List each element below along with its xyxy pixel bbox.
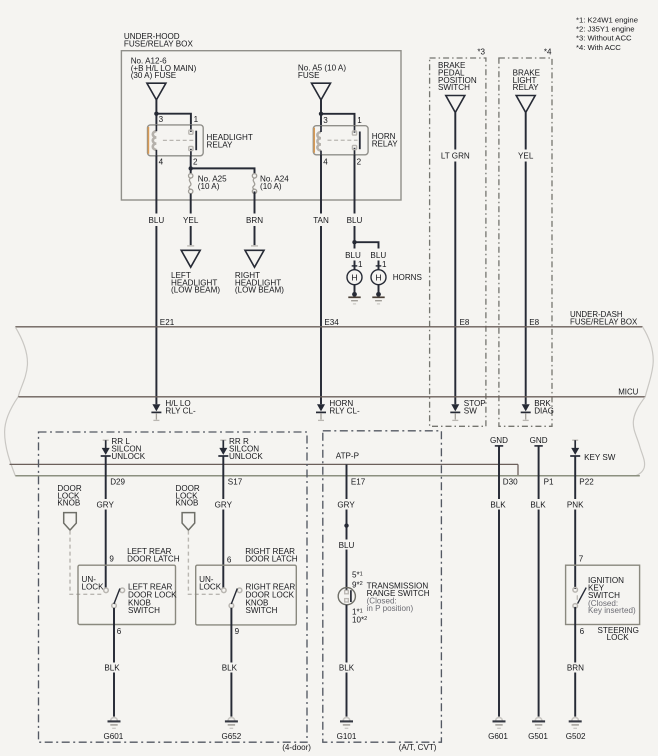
svg-text:G502: G502 [566,732,586,741]
svg-text:RELAY: RELAY [513,83,540,92]
wire label BLU (left horn) [345,242,361,260]
svg-text:G601: G601 [488,732,508,741]
wire BLK: transmission range switch to G101 [346,605,348,717]
wire PNK: MICU P22 to ignition key switch pin 7 [574,456,576,589]
fuse No. A24 (10 A) [252,174,289,194]
svg-text:UNLOCK: UNLOCK [229,452,263,461]
svg-text:D30: D30 [503,477,518,486]
svg-text:BLU: BLU [370,251,386,260]
wire label BLU [149,216,165,225]
option box *3 (without ACC) - brake pedal position switch [430,48,486,427]
svg-text:4: 4 [159,157,164,166]
connector label E34 [324,318,339,327]
brake pedal position switch arrow [438,61,477,112]
connector label E21 [160,318,175,327]
svg-text:GRY: GRY [96,501,114,510]
svg-text:(4-door): (4-door) [282,743,311,752]
left door lock knob switch [104,583,177,616]
svg-text:FUSE: FUSE [298,71,320,80]
wire YEL: fuse A25 to left headlight [187,194,194,246]
wire: fuse A5 to horn relay pin 3 [320,100,322,126]
MICU pin KEY SW [570,440,616,462]
svg-text:RLY CL-: RLY CL- [165,406,196,415]
wire LT GRN: brake pedal position switch to MICU (E8) [454,113,456,405]
svg-text:DOOR LATCH: DOOR LATCH [127,554,180,563]
svg-text:BRN: BRN [246,216,263,225]
svg-text:LOCK: LOCK [607,633,630,642]
svg-text:BLU: BLU [149,216,165,225]
horn relay pin numbers [323,116,362,166]
right latch pin 6 label [227,556,232,565]
MICU pin STOP SW [450,399,485,420]
svg-text:(10 A): (10 A) [260,182,282,191]
svg-text:2: 2 [193,157,198,166]
mechanical link: left knob to latch switch [70,531,104,595]
MICU torn left edge [5,397,19,476]
brake light relay arrow [513,69,541,113]
svg-text:P1: P1 [544,477,554,486]
svg-text:3: 3 [323,116,328,125]
svg-text:4: 4 [323,157,328,166]
svg-text:1: 1 [382,260,387,269]
ignition key switch box [566,565,640,624]
under-dash box torn right edge [643,327,654,397]
headlight relay pin numbers [159,115,199,166]
right headlight (low beam) arrow [235,250,284,294]
ignition key switch pin 6 label [580,627,585,636]
ground G502 [566,717,586,741]
(4-door) option box [39,432,312,752]
svg-text:1: 1 [357,116,362,125]
svg-text:*3: *3 [477,48,485,57]
ground G601 (MICU) [488,717,508,741]
svg-text:E34: E34 [324,318,339,327]
svg-text:BLK: BLK [339,664,355,673]
right horn ground [372,285,384,304]
svg-text:GRY: GRY [215,501,233,510]
fuse No. A25 (10 A) [189,168,228,193]
MICU pin GND (P1) [530,436,548,446]
left headlight (low beam) arrow [171,250,220,294]
wire label BRN [567,664,584,673]
svg-text:2: 2 [357,157,362,166]
wire BLU: headlight relay pin 4 down to MICU (E21) [155,156,157,404]
wire: branch to right horn [355,242,379,248]
svg-text:KNOB: KNOB [176,499,199,508]
transmission range switch [338,581,430,613]
under-dash fuse/relay box label [570,310,638,326]
MICU torn right edge [633,397,645,476]
svg-text:SWITCH: SWITCH [128,606,160,615]
svg-text:RLY CL-: RLY CL- [329,406,360,415]
svg-text:RELAY: RELAY [372,140,399,149]
connector label S17 [228,477,243,486]
svg-text:(10 A): (10 A) [198,182,220,191]
wire label PNK [567,501,584,510]
wire label GRY (left) [96,501,114,510]
left horn [347,270,362,285]
left door lock knob [57,484,81,530]
wire label BLK (D30) [490,501,506,510]
svg-text:GRY: GRY [337,501,355,510]
svg-text:*2: J35Y1 engine: *2: J35Y1 engine [576,25,635,34]
svg-text:YEL: YEL [183,216,199,225]
wire label YEL [183,216,199,225]
ignition key switch labels [588,576,636,615]
svg-text:KNOB: KNOB [57,499,80,508]
transmission range switch pins 1/10 [352,608,367,625]
MICU pin H/L LO RLY CL- [151,399,196,420]
svg-text:(A/T, CVT): (A/T, CVT) [399,743,437,752]
connector label D30 [503,477,518,486]
ground G601 (left latch) [103,717,123,741]
wire BRN: ignition key switch pin 6 to G502 [574,607,576,717]
note legend (engine/ACC variants) [576,16,638,52]
right latch pin 9 label [235,627,240,636]
MICU pin HORN RLY CL- [316,399,360,420]
svg-text:LOCK: LOCK [199,582,222,591]
wire GRY: MICU S17 to right rear door latch pin 6 [222,456,224,588]
mechanical link: right knob to latch switch [188,531,221,595]
wire: branch to headlight relay pin 1 [156,114,191,125]
svg-text:BLK: BLK [490,501,506,510]
svg-text:UNLOCK: UNLOCK [111,452,145,461]
svg-text:*3: Without ACC: *3: Without ACC [576,34,632,43]
MICU label [618,387,638,396]
wire label BLK (P1) [530,501,546,510]
label HORNS [393,273,423,282]
wire GRY: MICU E17 down [346,464,348,539]
right door lock knob switch [222,583,296,616]
svg-text:TAN: TAN [313,216,329,225]
svg-text:SWITCH: SWITCH [246,606,278,615]
junction node horn branch [352,240,356,244]
svg-text:DIAG: DIAG [534,406,554,415]
svg-text:BLK: BLK [530,501,546,510]
svg-text:E8: E8 [529,318,539,327]
svg-text:DOOR LATCH: DOOR LATCH [245,554,298,563]
wire BRN: fuse A24 to right headlight [251,191,258,246]
wire label BRN [246,216,263,225]
svg-text:P22: P22 [579,477,594,486]
svg-text:MICU: MICU [618,387,638,396]
svg-text:(30 A) FUSE: (30 A) FUSE [131,71,177,80]
svg-text:3: 3 [159,115,164,124]
svg-text:D29: D29 [110,477,125,486]
svg-text:G101: G101 [337,732,357,741]
ground G652 [221,717,241,741]
wire TAN: horn relay pin 4 down to MICU (E34) [320,155,322,404]
MICU pin BRK DIAG [521,399,554,420]
left latch pin 9 label [109,555,114,564]
transmission range switch pins 5/9 [352,571,363,590]
svg-text:G601: G601 [103,732,123,741]
under-dash box bottom edge [15,475,640,477]
svg-text:LOCK: LOCK [82,582,105,591]
ground G101 [337,717,357,741]
connector label E17 [351,477,366,486]
svg-text:*4: With ACC: *4: With ACC [576,43,621,52]
MICU pin ATP-P [336,451,359,460]
svg-text:LT GRN: LT GRN [441,152,470,161]
option box *4 (with ACC) - brake light relay [499,48,552,427]
wire label GRY (right) [215,501,233,510]
svg-text:PNK: PNK [567,501,584,510]
svg-text:1: 1 [358,260,363,269]
wire label BLU (right horn) [370,251,386,260]
svg-text:GND: GND [490,436,508,445]
wire YEL: brake light relay to MICU (E8) [525,113,527,405]
junction node at horn relay pin 3 [319,112,323,116]
wire BLK: left latch pin 6 to G601 [113,608,115,717]
ignition key switch pin 7 label [579,555,584,564]
wire GRY: MICU D29 to left rear door latch pin 9 [105,456,107,588]
svg-text:BLK: BLK [222,664,238,673]
connector label E8 (brake diag) [529,318,539,327]
svg-text:BLU: BLU [345,251,361,260]
svg-text:BLU: BLU [339,541,355,550]
connector label P1 [544,477,554,486]
svg-text:9: 9 [109,555,114,564]
connector label E8 (stop switch) [460,318,470,327]
svg-text:E8: E8 [460,318,470,327]
svg-text:FUSE/RELAY BOX: FUSE/RELAY BOX [570,317,638,326]
svg-text:KEY SW: KEY SW [584,453,616,462]
junction node at headlight relay pin 3 [154,112,158,116]
MICU top edge [18,396,645,398]
ignition key switch contacts [573,588,586,609]
wire label LT GRN [441,152,470,161]
left latch pin 6 label [117,627,122,636]
wire label BLK (TRS) [339,664,355,673]
fuse No. A12-6 (+B H/L LO MAIN) (30 A) [131,57,197,100]
svg-text:6: 6 [117,627,122,636]
under-dash box top edge [15,326,642,328]
wire label YEL (brake relay) [518,152,534,161]
svg-text:RELAY: RELAY [207,140,234,149]
MICU bottom inner edge [10,464,519,475]
connector label P22 [579,477,594,486]
svg-text:H: H [351,272,357,282]
wire BLK: right latch pin 9 to G652 [230,608,232,717]
junction node above fuse A25 [189,166,193,170]
right rear door latch box [196,547,298,625]
left horn pin 1 [352,260,363,270]
svg-text:in P position): in P position) [367,604,414,613]
right latch UN-LOCK label [199,575,222,591]
wire: headlight relay pin 2 to fuse branch node [190,156,192,169]
svg-text:E21: E21 [160,318,175,327]
svg-text:Key inserted): Key inserted) [588,606,636,615]
wire label BLU (horn feed) [347,216,363,225]
wire label BLK (left latch) [104,664,120,673]
svg-text:7: 7 [579,555,584,564]
svg-text:(LOW BEAM): (LOW BEAM) [235,286,284,295]
svg-text:BLK: BLK [104,664,120,673]
svg-text:G652: G652 [221,732,241,741]
headlight relay [148,125,253,156]
svg-text:SWITCH: SWITCH [438,83,470,92]
MICU pin RR R SILCON UNLOCK [218,437,263,461]
right door lock knob [176,484,200,530]
svg-text:YEL: YEL [518,152,534,161]
svg-text:GND: GND [530,436,548,445]
svg-text:SW: SW [464,406,477,415]
wire label GRY (ATP-P) [337,501,355,510]
under-dash box torn left edge [15,327,27,397]
fuse No. A5 (10 A) [298,64,346,100]
svg-text:*4: *4 [544,48,552,57]
wire label BLU (ATP-P) [339,541,355,550]
wire BLK: MICU GND D30 to G601 [498,446,500,717]
svg-text:E17: E17 [351,477,366,486]
svg-text:(LOW BEAM): (LOW BEAM) [171,286,220,295]
svg-text:FUSE/RELAY BOX: FUSE/RELAY BOX [124,39,194,48]
left horn ground [348,285,360,304]
svg-text:HORNS: HORNS [393,273,423,282]
wire BLU: horn relay pin 2 down to horns [354,155,356,242]
steering lock label [598,626,639,642]
wire BLU: splice to transmission range switch [346,550,348,591]
svg-text:ATP-P: ATP-P [336,451,359,460]
MICU pin GND (D30) [490,436,508,446]
wire label BLK (right latch) [222,664,238,673]
under-hood fuse/relay box outline [121,32,401,200]
ground G501 [528,717,548,741]
MICU pin RR L SILCON UNLOCK [101,437,146,461]
left latch UN-LOCK label [82,575,105,591]
svg-text:G501: G501 [528,732,548,741]
right horn [371,270,386,285]
left rear door latch box [78,547,180,625]
connector label D29 [110,477,125,486]
wire: branch to horn relay pin 1 [321,114,355,126]
wire: branch to fuse A24 [191,168,255,173]
svg-text:6: 6 [580,627,585,636]
(A/T, CVT) option box [323,431,442,752]
splice node GRY/BLU [344,523,348,527]
svg-text:H: H [375,272,381,282]
svg-text:9: 9 [235,627,240,636]
svg-text:S17: S17 [228,477,243,486]
svg-text:BRN: BRN [567,664,584,673]
wire label TAN [313,216,329,225]
right horn pin 1 [376,260,387,270]
svg-text:6: 6 [227,556,232,565]
wire: fuse A12-6 to headlight relay pin 3 [155,100,157,125]
horn relay [313,126,398,155]
svg-text:1: 1 [194,115,199,124]
svg-text:BLU: BLU [347,216,363,225]
wire BLK: MICU GND P1 to G501 [538,446,540,717]
svg-text:*1: K24W1 engine: *1: K24W1 engine [576,16,638,25]
